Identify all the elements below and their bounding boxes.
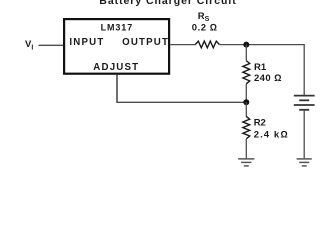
wire battery to ground: [303, 110, 305, 159]
wire RS to right corner: [219, 44, 304, 46]
ground under battery: [297, 159, 312, 166]
wire right corner down to battery: [303, 44, 305, 96]
resistor RS 0.2 ohm (horizontal zigzag): [195, 41, 219, 48]
op-amp U1 LM317 regulator box: [64, 19, 169, 74]
wire adjust horizontal: [116, 101, 246, 103]
svg-text:RS: RS: [198, 11, 210, 23]
svg-text:ADJUST: ADJUST: [93, 62, 139, 73]
wire top node to R1: [245, 45, 247, 61]
wire VI to INPUT: [39, 44, 64, 46]
node junction dot top (output node): [243, 42, 249, 48]
svg-text:VI: VI: [25, 39, 33, 51]
wire OUTPUT to RS: [170, 44, 195, 46]
svg-text:2.4 kΩ: 2.4 kΩ: [254, 130, 289, 141]
wire R2 to ground: [245, 139, 247, 159]
ground under R2: [238, 159, 254, 166]
node junction dot adjust: [243, 99, 249, 105]
svg-text:R1: R1: [254, 62, 267, 73]
wire adjust node to R2: [245, 102, 247, 116]
wire R1 to adjust node: [245, 84, 247, 103]
svg-text:240 Ω: 240 Ω: [254, 73, 282, 84]
svg-text:R2: R2: [254, 118, 266, 129]
wire ADJUST pin down: [116, 75, 118, 103]
battery B1: [294, 96, 315, 110]
resistor R1 240 ohm (vertical zigzag): [243, 61, 250, 84]
svg-text:Battery Charger Circuit: Battery Charger Circuit: [99, 0, 236, 7]
resistor R2 2.4 kohm (vertical zigzag): [243, 116, 250, 138]
svg-text:INPUT: INPUT: [69, 37, 104, 48]
svg-text:OUTPUT: OUTPUT: [122, 37, 169, 48]
svg-text:LM317: LM317: [101, 23, 134, 33]
svg-text:0.2 Ω: 0.2 Ω: [192, 23, 218, 34]
